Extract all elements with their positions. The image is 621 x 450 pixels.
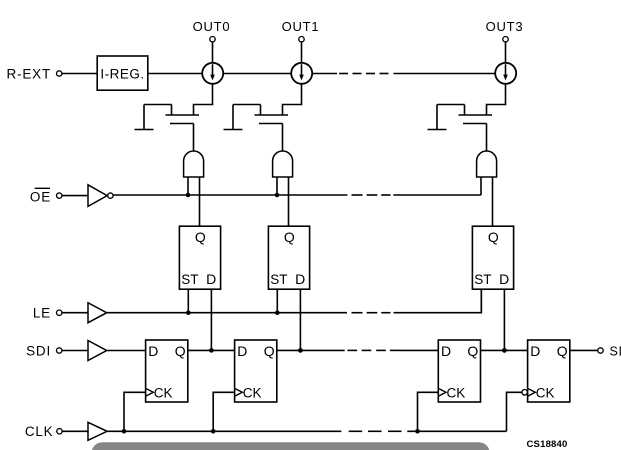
- wire latch ST pin: [276, 289, 278, 313]
- wire: [62, 430, 88, 432]
- svg-text:Q: Q: [195, 229, 206, 245]
- wire AND input from latch Q: [288, 177, 290, 226]
- node CLK: [25, 424, 62, 439]
- wire CLK to FF1 CK: [124, 392, 146, 431]
- wire latch D pin: [299, 289, 301, 350]
- and gate A2: [273, 151, 293, 177]
- wire drain: [194, 84, 213, 115]
- wire AND input from OE bus: [276, 177, 278, 195]
- wire LE bus dashed: [352, 312, 363, 314]
- wire: [301, 42, 303, 63]
- junction: [415, 429, 420, 434]
- svg-text:Q: Q: [467, 343, 478, 359]
- wire AND input from OE bus: [480, 177, 482, 195]
- and gate A1: [184, 151, 204, 177]
- wire top rail dashed: [339, 73, 348, 75]
- svg-text:D: D: [237, 343, 247, 359]
- svg-text:D: D: [499, 271, 509, 287]
- wire OE bus: [113, 194, 347, 196]
- wire AND input from OE bus: [187, 177, 189, 195]
- latch L2: [268, 226, 309, 289]
- latch L1: [179, 226, 220, 289]
- wire: [212, 42, 214, 63]
- wire latch D pin: [503, 289, 505, 350]
- svg-text:OUT1: OUT1: [282, 19, 320, 34]
- flip-flop FF2: [235, 340, 277, 402]
- node SDI: [26, 344, 62, 359]
- inverter U2: [88, 185, 113, 207]
- wire latch ST pin: [480, 289, 482, 313]
- wire: [62, 195, 88, 197]
- node LE: [33, 306, 62, 321]
- wire OE bus right: [393, 194, 481, 196]
- wire: [62, 350, 88, 352]
- transistor Q1: [135, 105, 200, 152]
- node OUT3: [486, 19, 524, 42]
- flip-flop FF3: [438, 340, 480, 402]
- flip-flop FF1: [146, 340, 188, 402]
- current source I2: [291, 63, 312, 84]
- wire I-REG to OUT0 current source: [148, 73, 203, 75]
- junction: [186, 310, 191, 315]
- transistor Q2: [224, 105, 289, 152]
- svg-text:ST: ST: [270, 272, 287, 287]
- wire FF3 Q to FF4 D: [481, 349, 528, 351]
- junction: [122, 429, 127, 434]
- svg-text:OUT0: OUT0: [193, 19, 231, 34]
- wire: [62, 73, 97, 75]
- svg-text:R-EXT: R-EXT: [7, 67, 52, 82]
- junction: [298, 348, 303, 353]
- latch L3: [472, 226, 513, 289]
- junction: [275, 193, 280, 198]
- node OUT0: [193, 19, 231, 42]
- and gate A3: [477, 151, 497, 177]
- wire SDI to FF1 D: [107, 350, 146, 352]
- wire CLK to FF3 CK: [418, 392, 439, 431]
- junction: [502, 348, 507, 353]
- svg-text:OUT3: OUT3: [486, 19, 524, 34]
- svg-text:ST: ST: [474, 272, 491, 287]
- wire dashes to OUT3 current source: [393, 73, 495, 75]
- node SDO: [598, 344, 621, 358]
- buffer U5: [88, 422, 107, 440]
- svg-text:D: D: [148, 343, 158, 359]
- junction: [186, 193, 191, 198]
- svg-text:Q: Q: [264, 343, 275, 359]
- wire AND input from latch Q: [199, 177, 201, 226]
- gray band (chip shadow): [92, 442, 490, 450]
- node R-EXT: [7, 67, 62, 82]
- wire latch D pin: [210, 289, 212, 350]
- wire LE bus: [107, 312, 347, 314]
- wire OE bus dashed: [352, 194, 363, 196]
- wire to FF3 D: [400, 349, 439, 351]
- svg-text:LE: LE: [33, 306, 51, 321]
- wire shift chain dashed: [348, 349, 358, 351]
- svg-text:CLK: CLK: [25, 424, 54, 439]
- svg-text:SDI: SDI: [26, 344, 51, 359]
- current source I1: [202, 63, 223, 84]
- wire drain: [283, 84, 302, 115]
- flip-flop FF4: [528, 340, 570, 402]
- wire OUT1 current source to dashes: [312, 73, 337, 75]
- wire CLK to FF2 CK: [213, 392, 234, 431]
- node OE (active low): [30, 188, 62, 204]
- svg-text:ST: ST: [181, 272, 198, 287]
- svg-text:OE: OE: [30, 190, 51, 205]
- junction: [211, 429, 216, 434]
- I-REG block U1: [97, 56, 148, 90]
- svg-text:I-REG.: I-REG.: [100, 67, 144, 82]
- svg-text:Q: Q: [175, 343, 186, 359]
- svg-text:D: D: [530, 343, 540, 359]
- junction: [275, 310, 280, 315]
- svg-text:D: D: [206, 271, 216, 287]
- wire CLK to FF4 CK (inverted): [507, 392, 522, 431]
- buffer U3: [88, 303, 107, 323]
- inversion bubble FF4 CK: [522, 390, 528, 396]
- wire CLK bus right: [407, 430, 506, 432]
- wire latch ST pin: [187, 289, 189, 313]
- svg-text:SDO: SDO: [610, 344, 621, 358]
- wire OUT0 to OUT1 current source: [223, 73, 291, 75]
- buffer U4: [88, 341, 107, 361]
- wire: [505, 42, 507, 63]
- junction: [502, 348, 507, 353]
- node OUT1: [282, 19, 320, 42]
- svg-text:CK: CK: [536, 385, 555, 400]
- svg-text:D: D: [441, 343, 451, 359]
- transistor Q3: [428, 105, 493, 152]
- junction: [209, 348, 214, 353]
- wire AND input from latch Q: [492, 177, 494, 226]
- wire FF4 Q to SDO: [570, 349, 598, 351]
- current source I3: [495, 63, 516, 84]
- svg-text:CK: CK: [447, 385, 466, 400]
- svg-text:CS18840: CS18840: [526, 439, 567, 450]
- wire CLK bus dashed: [349, 430, 363, 432]
- junction: [298, 348, 303, 353]
- svg-text:Q: Q: [488, 229, 499, 245]
- wire: [62, 312, 88, 314]
- svg-text:D: D: [295, 271, 305, 287]
- wire CLK bus: [107, 430, 341, 432]
- wire FF2 Q: [277, 349, 345, 351]
- svg-text:CK: CK: [243, 385, 262, 400]
- svg-text:CK: CK: [154, 385, 173, 400]
- wire drain: [487, 84, 506, 115]
- svg-text:Q: Q: [557, 343, 568, 359]
- wire LE bus right to latch3 ST: [394, 289, 482, 313]
- svg-text:Q: Q: [284, 229, 295, 245]
- wire FF1 Q to FF2 D: [188, 349, 235, 351]
